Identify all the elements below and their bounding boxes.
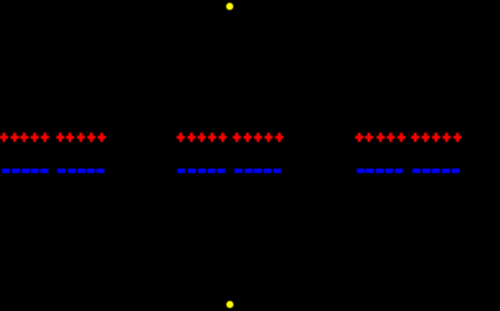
negative charge -17 [245,169,253,173]
positive charge +7 [66,133,74,142]
positive charge +9 [87,133,95,142]
negative charge -28 [432,169,440,173]
positive charge +28 [432,133,440,142]
positive charge +19 [265,133,273,142]
positive charge +4 [31,133,39,142]
negative charge -12 [188,169,196,173]
positive charge row, right outer segment [355,133,405,142]
negative charge -11 [177,169,185,173]
negative charge row, right inner segment [413,169,460,173]
positive charge +15 [219,133,227,142]
positive charge +1 [0,133,8,142]
negative charge -22 [366,169,374,173]
negative charge -19 [263,169,271,173]
positive charge +18 [254,133,262,142]
yellow ion P2, below membrane after passing through channel [226,301,233,308]
negative charge -15 [217,169,225,173]
negative charge row, middle inner segment [234,169,281,173]
positive charge +25 [397,133,405,142]
negative charge -27 [422,169,430,173]
positive charge row, right inner segment [411,133,461,142]
positive charge +29 [443,133,451,142]
positive charge row, middle outer segment [177,133,227,142]
positive charge +23 [377,133,385,142]
negative charge -9 [87,169,95,173]
negative charge -20 [273,169,281,173]
negative charge -3 [22,169,30,173]
negative charge -24 [385,169,393,173]
positive charge +27 [422,133,430,142]
positive charge row, left inner segment [56,133,105,142]
negative charge -6 [57,169,65,173]
positive charge +22 [365,133,373,142]
negative charge row, middle outer segment [177,169,225,173]
negative charge -4 [31,169,39,173]
positive charge +2 [11,133,19,142]
positive charge +8 [77,133,85,142]
yellow ion P1, above membrane at channel entrance [226,3,233,10]
positive charge +26 [411,133,419,142]
negative charge -18 [254,169,262,173]
positive charge +5 [41,133,49,142]
negative charge -16 [234,169,242,173]
positive charge +11 [177,133,185,142]
negative charge -1 [2,169,10,173]
positive charge +10 [98,133,106,142]
negative charge row, left outer segment [2,169,48,173]
positive charge +16 [233,133,241,142]
positive charge +20 [275,133,283,142]
negative charge -26 [413,169,421,173]
negative charge -8 [77,169,85,173]
positive charge row, left outer segment [0,133,49,142]
positive charge +21 [355,133,363,142]
positive charge +6 [56,133,64,142]
negative charge -30 [452,169,460,173]
negative charge -25 [395,169,403,173]
negative charge row, left inner segment [57,169,104,173]
negative charge row, right outer segment [357,169,403,173]
negative charge -7 [68,169,76,173]
negative charge -5 [40,169,48,173]
positive charge +3 [20,133,28,142]
positive charge +17 [244,133,252,142]
negative charge -14 [207,169,215,173]
positive charge +13 [198,133,206,142]
negative charge -13 [198,169,206,173]
negative charge -23 [376,169,384,173]
negative charge -2 [12,169,20,173]
negative charge -29 [442,169,450,173]
positive charge +24 [387,133,395,142]
negative charge -10 [96,169,104,173]
positive charge +12 [187,133,195,142]
positive charge row, middle inner segment [233,133,283,142]
positive charge +30 [453,133,461,142]
negative charge -21 [357,169,365,173]
positive charge +14 [208,133,216,142]
